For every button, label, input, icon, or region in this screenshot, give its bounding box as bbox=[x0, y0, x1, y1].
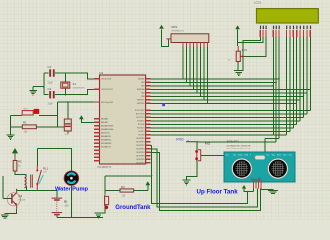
junction dot net1/branch bbox=[151, 175, 153, 177]
wire coil bottom bbox=[26, 187, 28, 191]
svg-text:RA0/AN0: RA0/AN0 bbox=[101, 118, 108, 121]
wire crystal taps bbox=[65, 73, 67, 95]
svg-text:OSC2/CLKOUT: OSC2/CLKOUT bbox=[101, 89, 113, 91]
ground (Q1 emitter) bbox=[1, 215, 9, 218]
wire RXD row to button bbox=[197, 142, 276, 150]
svg-text:RB5: RB5 bbox=[141, 96, 144, 98]
wire R3 power stem bbox=[147, 185, 149, 190]
capacitor C1 bbox=[48, 65, 55, 85]
wire LCD VEE to wiper bbox=[240, 37, 266, 57]
power arrow (to RA1) bbox=[79, 115, 84, 119]
blue node marker bbox=[162, 103, 165, 106]
wire RP1 pullup drop 8 bbox=[207, 46, 209, 103]
wire bus band B row 3 bbox=[151, 120, 300, 122]
wire R3 left vertical bbox=[104, 176, 106, 195]
sonar top pin text row bbox=[226, 153, 292, 156]
LCD pin stubs bbox=[260, 30, 310, 37]
capacitor C2 bbox=[64, 119, 71, 136]
svg-text:1uF: 1uF bbox=[64, 134, 68, 136]
wire reset button row bbox=[11, 114, 58, 116]
svg-text:U1: U1 bbox=[99, 71, 103, 75]
ground (crystal) bbox=[29, 90, 37, 95]
wire bus band B row 1 bbox=[151, 113, 307, 115]
svg-text:Q1: Q1 bbox=[19, 194, 23, 198]
svg-text:RB1: RB1 bbox=[141, 82, 144, 84]
pin stubs right bbox=[146, 79, 151, 163]
wire RP1 pullup drop 6 bbox=[200, 46, 202, 96]
sonar module SONAR1 bbox=[224, 140, 295, 189]
node dot crystal rails bbox=[65, 72, 67, 74]
wire RP1 pullup drop 5 bbox=[196, 46, 198, 92]
sonar left transducer bbox=[232, 158, 252, 178]
transistor Q1 BD139 bbox=[7, 189, 26, 209]
wire ground stub crystal bbox=[33, 87, 44, 91]
svg-text:RB7/PGD: RB7/PGD bbox=[137, 103, 145, 105]
wire RV1 power stem bbox=[237, 29, 239, 46]
water pump motor icon bbox=[64, 171, 79, 186]
blue annotation RXD probe bbox=[176, 137, 198, 142]
svg-text:Vcc: Vcc bbox=[267, 154, 270, 156]
junction dots band A tails bbox=[273, 78, 280, 87]
svg-text:RA5/AN4/SS: RA5/AN4/SS bbox=[101, 135, 112, 138]
svg-text:Echo: Echo bbox=[239, 154, 243, 156]
pin stubs left upper bbox=[94, 79, 100, 102]
relay actuation link (cyan) bbox=[39, 175, 43, 184]
resistor R2 bbox=[13, 158, 22, 171]
wire RP1 pullup drop 7 bbox=[203, 46, 205, 99]
crystal X1 bbox=[61, 82, 85, 90]
svg-text:RA1/AN1: RA1/AN1 bbox=[101, 121, 108, 124]
wire bus band B row 7 bbox=[151, 134, 287, 136]
wire RP1 pullup drop 2 bbox=[186, 46, 188, 82]
svg-text:SONAR1: SONAR1 bbox=[227, 140, 240, 144]
svg-text:RC0/T1OSO: RC0/T1OSO bbox=[135, 110, 145, 112]
wire bus band A row 6 bbox=[151, 99, 300, 101]
power arrow (sonar VCC) bbox=[242, 185, 246, 189]
wire LCD D2 vertical bbox=[292, 37, 294, 128]
svg-text:RESPACK-8: RESPACK-8 bbox=[172, 30, 185, 33]
svg-text:Out: Out bbox=[289, 153, 292, 156]
resistor pack RP1 bbox=[167, 25, 209, 47]
WIRES_C bbox=[3, 29, 273, 217]
wire bus band A row 5 bbox=[151, 95, 304, 97]
wire LCD VDD to power rail bbox=[238, 37, 264, 43]
wire LCD RS vertical bbox=[272, 37, 274, 135]
svg-text:12V: 12V bbox=[65, 205, 70, 208]
svg-text:RB2: RB2 bbox=[141, 86, 144, 88]
COMPONENTS_PASSIVE bbox=[1, 25, 278, 218]
op: microcontroller U1 PIC16F877A bbox=[94, 71, 151, 169]
wire pump bottom to bottom-left rail bbox=[70, 185, 72, 218]
wire crystal bottom rail to OSC2 bbox=[44, 89, 94, 94]
wire groundtank button to ground bbox=[99, 209, 106, 214]
wire bus band B row 2 bbox=[151, 116, 304, 118]
wire MCLR vertical bbox=[56, 102, 58, 127]
svg-text:RD4/PSP4: RD4/PSP4 bbox=[136, 152, 144, 154]
potentiometer RV1 bbox=[228, 46, 248, 64]
ground (R1 reset) bbox=[7, 135, 15, 140]
svg-text:GroundTank: GroundTank bbox=[115, 205, 151, 211]
wire C2 top lead bbox=[67, 102, 69, 119]
wire sonar net 3 bbox=[151, 152, 261, 210]
svg-text:X1: X1 bbox=[73, 82, 77, 86]
svg-text:Water Pump: Water Pump bbox=[55, 187, 88, 193]
wire R1 row bbox=[11, 126, 65, 128]
ground (RV1 / LCD VSS) bbox=[234, 71, 244, 76]
wire RP1 pullup drop 4 bbox=[193, 46, 195, 89]
wire left reset rail bbox=[10, 115, 12, 134]
svg-text:RST: RST bbox=[24, 108, 29, 110]
power arrow (R2) bbox=[13, 149, 18, 158]
svg-text:RD3/PSP3: RD3/PSP3 bbox=[136, 149, 144, 151]
svg-text:RE1/AN6/WR: RE1/AN6/WR bbox=[101, 142, 112, 145]
svg-text:C4: C4 bbox=[48, 87, 52, 91]
wire crystal top rail to OSC1 bbox=[44, 73, 94, 79]
LCD pin name ticks bbox=[260, 26, 311, 30]
svg-text:RL1: RL1 bbox=[43, 166, 49, 170]
svg-text:RB6/PGC: RB6/PGC bbox=[137, 100, 145, 102]
wire R3 upper branch bbox=[105, 175, 152, 177]
wire C2 bottom lead bbox=[67, 131, 69, 133]
COMPONENTS_BOTTOM bbox=[7, 103, 295, 215]
wire sonar net 1 (U1 to sonar, inner) bbox=[151, 145, 248, 203]
wire bus band A row 7 bbox=[151, 102, 297, 104]
svg-text:C1: C1 bbox=[48, 65, 52, 69]
svg-text:RC4/SDI: RC4/SDI bbox=[138, 124, 145, 126]
svg-text:PIC16F877A: PIC16F877A bbox=[98, 166, 112, 169]
svg-text:RC6/TX: RC6/TX bbox=[139, 131, 146, 133]
wire bottom-left rail bbox=[57, 216, 103, 218]
wire LCD D5 vertical bbox=[303, 37, 305, 118]
wire RP1 power arrow stem bbox=[162, 29, 169, 46]
svg-text:OSC1/CLKIN: OSC1/CLKIN bbox=[101, 79, 112, 81]
groundtank button bbox=[104, 195, 108, 210]
wire relay: R2 to coil bbox=[15, 171, 27, 175]
wire bus band B row 0 bbox=[151, 109, 311, 111]
wire bus band B row 4 bbox=[151, 123, 297, 125]
svg-text:RXD: RXD bbox=[176, 137, 184, 141]
wire RV1 bottom to ground bbox=[237, 62, 239, 71]
svg-text:RC3/SCK: RC3/SCK bbox=[137, 121, 145, 123]
svg-text:RD7/PSP7: RD7/PSP7 bbox=[136, 163, 144, 165]
power arrow (R3) bbox=[146, 181, 151, 185]
sonar pin labels bbox=[252, 176, 261, 180]
wire LCD RW vertical bbox=[275, 37, 277, 142]
svg-text:Trig: Trig bbox=[272, 154, 275, 156]
capacitor C4 bbox=[48, 87, 55, 106]
svg-text:RB0/INT: RB0/INT bbox=[138, 79, 144, 81]
svg-text:MCLR/Vpp/THV: MCLR/Vpp/THV bbox=[101, 102, 114, 104]
wire LCD VSS down-left to pot ground bbox=[243, 37, 260, 71]
svg-text:Gnd: Gnd bbox=[283, 154, 286, 156]
wire Q1 emitter to ground bbox=[5, 209, 17, 214]
svg-text:RD0/PSP0: RD0/PSP0 bbox=[136, 138, 144, 140]
svg-text:RC5/SDO: RC5/SDO bbox=[137, 128, 145, 130]
RX2 button (up floor tank switch) bbox=[195, 142, 224, 161]
svg-text:BD139: BD139 bbox=[19, 200, 26, 202]
svg-text:RV1: RV1 bbox=[242, 48, 248, 52]
svg-text:RP1: RP1 bbox=[172, 25, 178, 29]
wire LCD D7 vertical bbox=[309, 37, 311, 111]
wire sonar top drop bbox=[265, 138, 279, 152]
svg-text:R3: R3 bbox=[121, 185, 125, 189]
svg-text:Trig: Trig bbox=[233, 154, 236, 156]
svg-text:RC7/RX: RC7/RX bbox=[138, 135, 145, 137]
power arrow (RP1) bbox=[159, 25, 164, 29]
wire bus band A row 4 bbox=[151, 92, 307, 94]
junction dot R3 bbox=[104, 190, 106, 192]
wire RX2 button bottom to ground bbox=[187, 161, 197, 181]
wire MCLR row bbox=[57, 101, 94, 103]
wire bus band A row 0 (RB0) bbox=[151, 78, 279, 80]
wire crystal left rail bbox=[43, 73, 45, 95]
svg-text:12V: 12V bbox=[43, 172, 47, 174]
wire Q1 base bbox=[3, 176, 11, 199]
svg-text:RA3/AN3/VREF+: RA3/AN3/VREF+ bbox=[101, 128, 114, 131]
svg-text:RC2/CCP1: RC2/CCP1 bbox=[136, 117, 144, 119]
power arrow (RV1) bbox=[235, 25, 240, 29]
pin stubs left lower bbox=[94, 119, 100, 161]
svg-text:B1: B1 bbox=[64, 199, 68, 203]
svg-text:22pF: 22pF bbox=[48, 82, 54, 85]
wire motor rail (coil/Q1/contact/battery) bbox=[17, 189, 57, 197]
wire sonar ground link bbox=[261, 188, 273, 190]
ground (sonar gnd pin) bbox=[268, 190, 278, 193]
pin labels left bbox=[101, 79, 114, 149]
WIRES_A bbox=[11, 72, 95, 135]
wire battery bottom lead bbox=[56, 215, 58, 217]
svg-text:R2: R2 bbox=[18, 160, 22, 164]
wire bus band B row 5 bbox=[151, 127, 294, 129]
wire power to RA1 bbox=[81, 119, 94, 122]
wire LCD E vertical bbox=[278, 37, 280, 139]
wire bus band A row 2 bbox=[151, 85, 274, 87]
svg-text:Vcc: Vcc bbox=[226, 154, 229, 156]
wire LCD D3 vertical bbox=[296, 37, 298, 125]
wire bus band A row 1 bbox=[151, 81, 276, 83]
relay RL1 contact bbox=[36, 166, 41, 191]
svg-text:RE2/AN7/CS: RE2/AN7/CS bbox=[101, 146, 112, 149]
svg-text:Echo: Echo bbox=[277, 154, 281, 156]
svg-text:Up Floor Tank: Up Floor Tank bbox=[197, 189, 239, 196]
sonar pin stubs bbox=[254, 179, 261, 189]
LCD display LCD1 bbox=[254, 0, 318, 37]
svg-text:RX2: RX2 bbox=[205, 142, 211, 146]
wire LCD D1 vertical bbox=[289, 37, 291, 132]
svg-text:RD5/PSP5: RD5/PSP5 bbox=[136, 156, 144, 158]
node dot C2-MCLR bbox=[67, 101, 69, 103]
wire sonar net 2 bbox=[151, 149, 258, 207]
svg-text:RC1/T1OSI: RC1/T1OSI bbox=[136, 114, 145, 116]
svg-text:RE0/AN5/RD: RE0/AN5/RD bbox=[101, 139, 112, 142]
wire LCD D4 vertical bbox=[299, 37, 301, 121]
wire LCD D6 vertical bbox=[306, 37, 308, 114]
wire LCD D0 vertical bbox=[286, 37, 288, 135]
junction dot VDD/pot bbox=[237, 42, 239, 44]
svg-text:RD1/PSP1: RD1/PSP1 bbox=[136, 142, 144, 144]
svg-text:22pF: 22pF bbox=[48, 103, 54, 106]
svg-text:RA4/T0CKI: RA4/T0CKI bbox=[101, 132, 110, 135]
svg-text:11059200Hz: 11059200Hz bbox=[73, 88, 85, 90]
reset button (top) bbox=[22, 108, 39, 115]
wire sonar power arrow link bbox=[244, 188, 254, 191]
pin labels right bbox=[135, 79, 145, 165]
wire bus band B row 6 bbox=[151, 130, 290, 132]
sonar right transducer bbox=[268, 158, 288, 178]
COMPONENTS_MAIN bbox=[94, 0, 318, 169]
svg-text:RB4: RB4 bbox=[141, 93, 144, 95]
wire bus band A row 3 bbox=[151, 88, 311, 90]
ground (up floor tank button) bbox=[183, 180, 191, 185]
wire R3 row bbox=[105, 190, 148, 192]
junction dots RP1 drops on band A bbox=[182, 78, 208, 104]
svg-text:RA2/AN2/VREF-: RA2/AN2/VREF- bbox=[101, 125, 114, 128]
svg-text:RD6/PSP6: RD6/PSP6 bbox=[136, 159, 144, 161]
battery B1 bbox=[52, 197, 69, 216]
wire RP1 pullup drop 1 bbox=[182, 46, 184, 78]
svg-text:LCD1: LCD1 bbox=[254, 0, 262, 4]
svg-text:RB3/PGM: RB3/PGM bbox=[137, 89, 145, 91]
resistor R3 bbox=[120, 185, 134, 197]
wire contact top to pump bbox=[37, 149, 71, 172]
node dot MCLR-button bbox=[57, 115, 59, 117]
svg-text:ULTRASONIC SENSOR: ULTRASONIC SENSOR bbox=[227, 144, 251, 147]
WIRES_B bbox=[151, 37, 311, 153]
ground (groundtank button) bbox=[95, 213, 103, 218]
svg-text:RD2/PSP2: RD2/PSP2 bbox=[136, 145, 144, 147]
svg-text:Gnd: Gnd bbox=[245, 154, 248, 156]
resistor R1 bbox=[22, 120, 36, 133]
wire RP1 pullup drop 3 bbox=[189, 46, 191, 85]
sonar crystal bbox=[255, 155, 265, 159]
svg-text:R1: R1 bbox=[23, 120, 27, 124]
relay RL1 coil bbox=[25, 175, 33, 188]
